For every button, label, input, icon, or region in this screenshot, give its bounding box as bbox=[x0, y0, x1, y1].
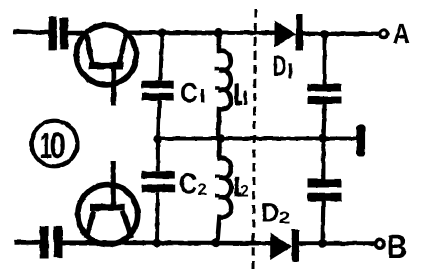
svg-text:B: B bbox=[387, 228, 407, 265]
svg-text:C: C bbox=[180, 77, 198, 108]
svg-text:C: C bbox=[179, 169, 197, 201]
svg-text:A: A bbox=[393, 18, 411, 50]
svg-text:0: 0 bbox=[49, 125, 65, 166]
svg-text:D: D bbox=[261, 198, 279, 228]
svg-text:2: 2 bbox=[241, 182, 249, 201]
svg-text:D: D bbox=[273, 51, 287, 83]
svg-text:2: 2 bbox=[279, 209, 290, 227]
svg-text:2: 2 bbox=[198, 180, 207, 199]
